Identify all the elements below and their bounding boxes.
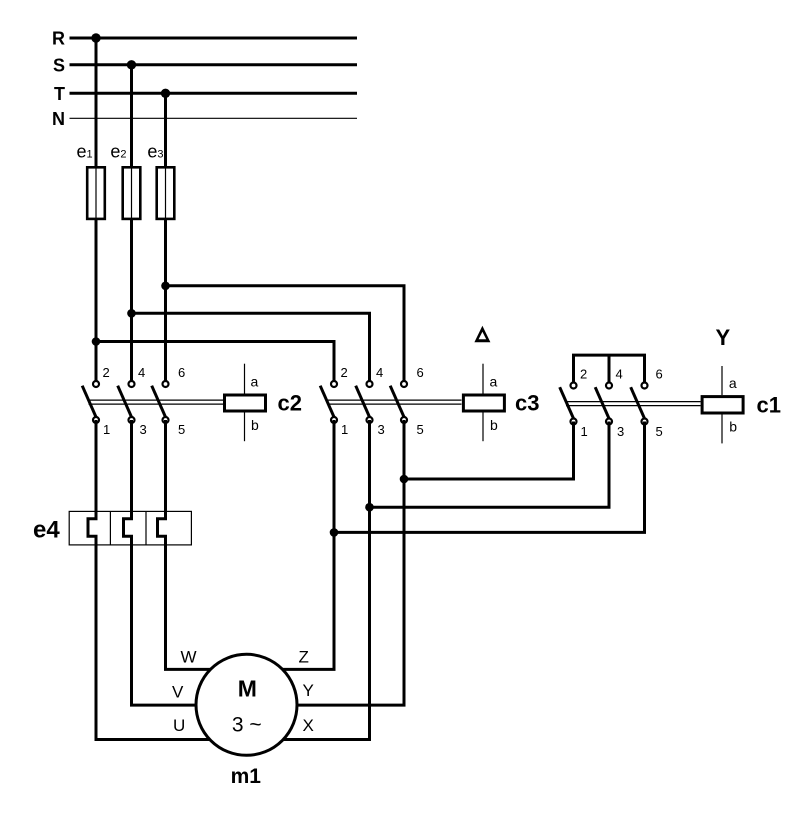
contactor c1 mechanical linkage [566,402,701,406]
delta symbol above coil c3 [474,326,490,343]
svg-text:1: 1 [341,422,348,437]
svg-text:1: 1 [581,424,588,439]
coil c3 [463,364,539,442]
wire c2 pin 1 through overload to motor U [88,420,211,740]
svg-text:a: a [251,374,259,390]
power rail S [53,55,357,75]
node junction S tap [127,60,136,69]
contactor c1 pole 2 (pins 4-3) [595,367,624,440]
svg-text:5: 5 [178,422,185,437]
power rail R [52,29,357,49]
wire L2 from rail S to fuse e2 [130,65,133,167]
svg-text:W: W [181,648,197,667]
svg-text:R: R [52,29,65,49]
svg-text:5: 5 [417,422,424,437]
svg-text:2: 2 [103,365,110,380]
node junction T tap [161,89,170,98]
wire c2 pin 5 through overload to motor W [158,420,212,669]
svg-text:N: N [52,109,65,129]
svg-text:Y: Y [303,681,314,700]
svg-text:3: 3 [617,424,624,439]
node junction R tap [91,33,100,42]
svg-text:S: S [53,55,65,75]
wire c3 pin 5 down to motor Y [297,420,405,705]
svg-text:Y: Y [715,325,730,350]
svg-text:a: a [490,374,498,390]
wire c3 pin 3 down to motor X [283,420,370,740]
svg-text:6: 6 [417,365,424,380]
svg-text:M: M [238,676,257,702]
thermal overload relay e4 [33,511,191,545]
svg-text:X: X [303,716,314,735]
wire branch S phase to c3 pin 4 [132,313,370,384]
coil c1 [702,366,781,443]
contactor c2 mechanical linkage [89,400,224,404]
wire c3 pin 1 down to motor Z [282,420,334,669]
contactor c3 pole 1 (pins 2-1) [320,365,348,437]
svg-text:6: 6 [178,365,185,380]
svg-text:b: b [490,417,498,433]
svg-text:4: 4 [616,367,623,382]
wire branch R phase to c3 pin 2 [96,342,334,385]
svg-text:c1: c1 [757,393,781,418]
wire L1 from fuse e1 to contactor c2 pole 1 [95,219,98,384]
wire c1 pin 1 to node on c3 pin 5 wire [404,422,574,480]
svg-text:e4: e4 [33,517,60,544]
svg-text:4: 4 [138,365,145,380]
svg-text:a: a [729,375,737,391]
svg-text:c2: c2 [278,391,302,416]
contactor c2 pole 3 (pins 6-5) [152,365,186,437]
svg-text:3 ~: 3 ~ [232,714,262,737]
contactor c1 pole 1 (pins 2-1) [560,367,588,440]
star bridge bar on c1 pins 2-4-6 [574,355,645,384]
power rail T [54,84,357,104]
node junction R branch [92,337,101,346]
wire c1 pin 5 to node on c3 pin 1 wire [334,422,645,533]
node junction c3 pin5 / c1 pin1 [400,475,409,484]
svg-text:V: V [172,683,184,702]
contactor c3 pole 2 (pins 4-3) [356,365,385,437]
svg-text:4: 4 [376,365,383,380]
svg-text:3: 3 [378,422,385,437]
svg-text:b: b [729,419,737,435]
contactor c2 pole 2 (pins 4-3) [118,365,147,437]
contactor c3 pole 3 (pins 6-5) [390,365,424,437]
fuse e2 [110,142,140,220]
wire c2 pin 3 through overload to motor V [124,420,197,705]
svg-text:Z: Z [299,648,309,667]
node junction S branch [127,309,136,318]
svg-text:b: b [251,417,259,433]
svg-text:3: 3 [140,422,147,437]
svg-text:m1: m1 [231,765,262,788]
wire L3 from rail T to fuse e3 [164,93,167,167]
coil c2 [225,364,302,442]
wire L1 from rail R to fuse e1 [95,38,98,167]
motor m1 circle [196,654,297,755]
contactor c2 pole 1 (pins 2-1) [82,365,110,437]
neutral rail N [52,109,357,129]
svg-text:U: U [173,716,185,735]
contactor c3 mechanical linkage [327,400,462,404]
svg-text:c3: c3 [515,391,539,416]
svg-text:T: T [54,84,65,104]
svg-text:1: 1 [103,422,110,437]
svg-text:6: 6 [656,367,663,382]
node junction T branch [161,282,170,291]
contactor c1 pole 3 (pins 6-5) [631,367,663,440]
node junction c3 pin1 / c1 pin5 [330,528,339,537]
svg-text:5: 5 [656,424,663,439]
svg-text:2: 2 [580,367,587,382]
wire c1 pin 3 to node on c3 pin 3 wire [370,422,610,508]
wire branch T phase to c3 pin 6 [166,286,405,384]
fuse e1 [77,142,105,220]
node junction c3 pin3 / c1 pin3 [365,503,374,512]
fuse e3 [147,142,174,220]
svg-text:2: 2 [341,365,348,380]
wire L2 from fuse e2 to contactor c2 pole 2 [130,219,133,384]
wire L3 from fuse e3 to contactor c2 pole 3 [164,219,167,384]
